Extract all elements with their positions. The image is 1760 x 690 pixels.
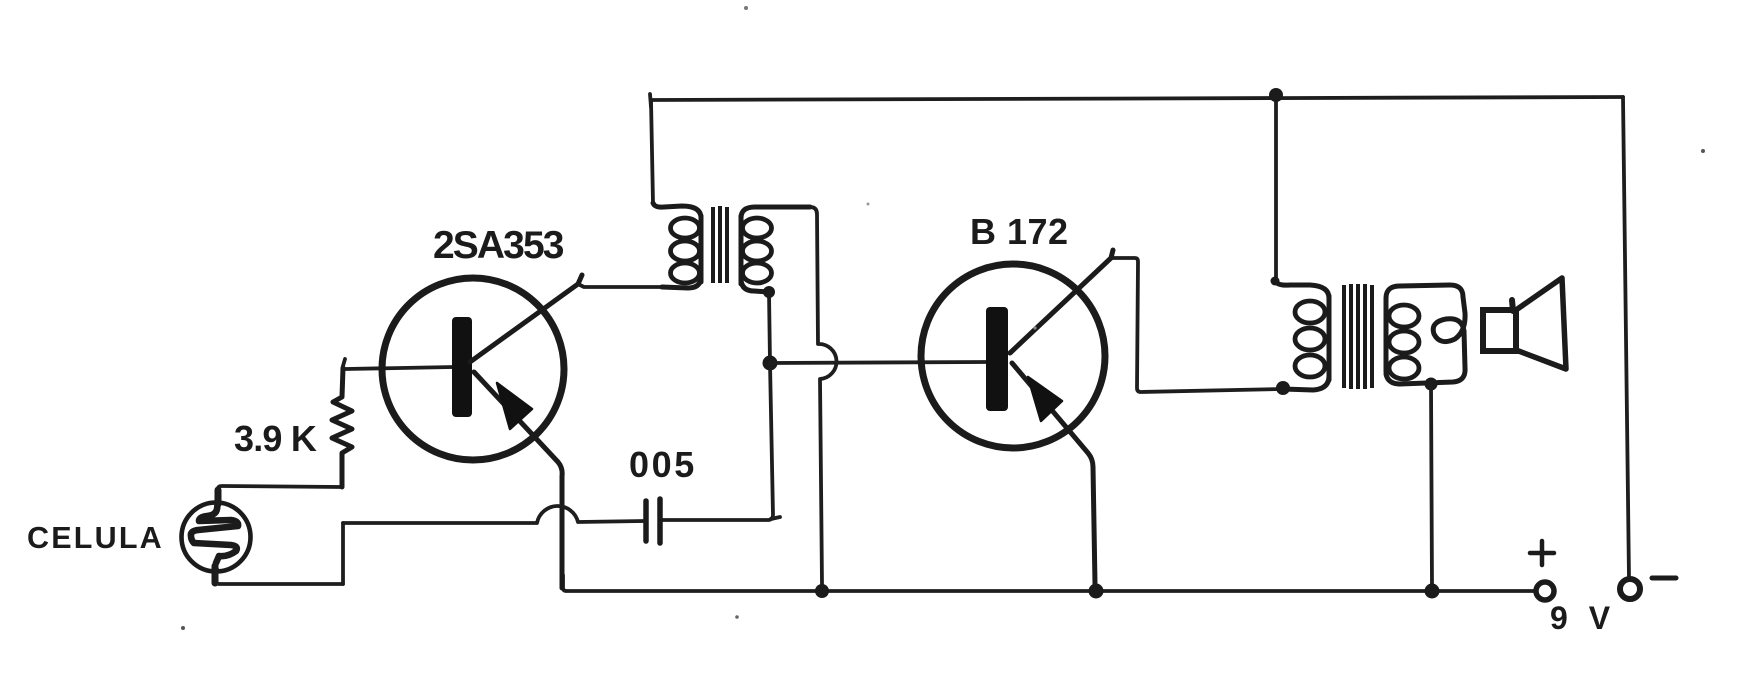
wire T2 secondary down to bottom rail (1431, 384, 1432, 588)
wire Q1 collector to T1 primary (578, 284, 662, 287)
wire right side down to minus terminal (1623, 97, 1629, 579)
svg-text:CELULA: CELULA (27, 521, 164, 555)
wire base node down to capacitor (660, 363, 773, 520)
photocell LDR (182, 490, 251, 583)
node bottom rail / Q2 emitter (1089, 584, 1104, 599)
primary loops (1295, 301, 1325, 323)
battery minus terminal (1620, 579, 1640, 599)
secondary outline (1386, 285, 1465, 384)
secondary loops (1389, 305, 1419, 327)
emitter stroke (1012, 363, 1095, 584)
collector stroke (1010, 250, 1113, 353)
wire Q2 collector staircase to T2 primary bottom (1111, 258, 1283, 392)
wire photocell top lead to resistor bottom (218, 486, 342, 504)
paper specks (181, 626, 185, 630)
secondary loops (743, 218, 772, 238)
wire capacitor left to photocell riser with hop over emitter (343, 506, 646, 523)
svg-text:3.9 K: 3.9 K (234, 418, 317, 459)
wire Q2 base lead (770, 362, 986, 363)
wire bottom rail (563, 575, 1535, 591)
primary top lead (1276, 281, 1329, 298)
collector stroke (470, 275, 582, 362)
transformer T1 interstage (653, 203, 810, 292)
secondary spine (739, 216, 744, 284)
node junction top rail / T2 feed (1269, 88, 1283, 102)
primary top lead (653, 203, 701, 218)
primary spine (699, 216, 704, 282)
node T1 secondary bottom (763, 286, 775, 298)
transformer T2 output (1276, 281, 1465, 390)
wire T1 secondary top corner down with hop over base wire, to bottom rail (810, 207, 837, 584)
secondary bottom lead (741, 280, 769, 292)
wire T1 primary feed vertical (651, 100, 653, 203)
primary loops (671, 218, 700, 238)
wire riser x343 between bottom leads (341, 523, 345, 584)
wire T2 primary feed vertical (1274, 95, 1278, 281)
battery plus terminal (1536, 582, 1554, 600)
node T2 primary bottom (1276, 381, 1290, 395)
wire photocell bottom lead (216, 569, 343, 584)
svg-text:005: 005 (629, 444, 697, 485)
primary spine (1327, 296, 1332, 380)
plus sign (1530, 541, 1554, 565)
wire T1 secondary bottom down to base node (769, 292, 770, 363)
svg-text:B 172: B 172 (970, 211, 1069, 252)
speaker (1483, 278, 1566, 369)
wire top rail (651, 97, 1623, 100)
primary bottom lead (1283, 376, 1329, 390)
node base junction (763, 356, 778, 371)
emitter arrow (1028, 377, 1062, 421)
core lines (711, 207, 715, 283)
minus sign (1652, 576, 1676, 581)
svg-text:9 V: 9 V (1550, 600, 1616, 636)
primary bottom lead (662, 278, 701, 288)
node T2 secondary bottom (1425, 378, 1438, 391)
core lines (1342, 285, 1346, 388)
node T2 feed corner blob (1271, 277, 1280, 286)
emitter stroke (474, 372, 562, 588)
wire base lead Q1 with corner tick (343, 359, 454, 369)
svg-text:2SA353: 2SA353 (433, 224, 564, 267)
secondary top lead (741, 207, 810, 218)
node bottom rail / T2 secondary (1425, 584, 1440, 599)
node bottom rail / T1 secondary return (815, 584, 829, 598)
emitter arrow (497, 383, 532, 429)
